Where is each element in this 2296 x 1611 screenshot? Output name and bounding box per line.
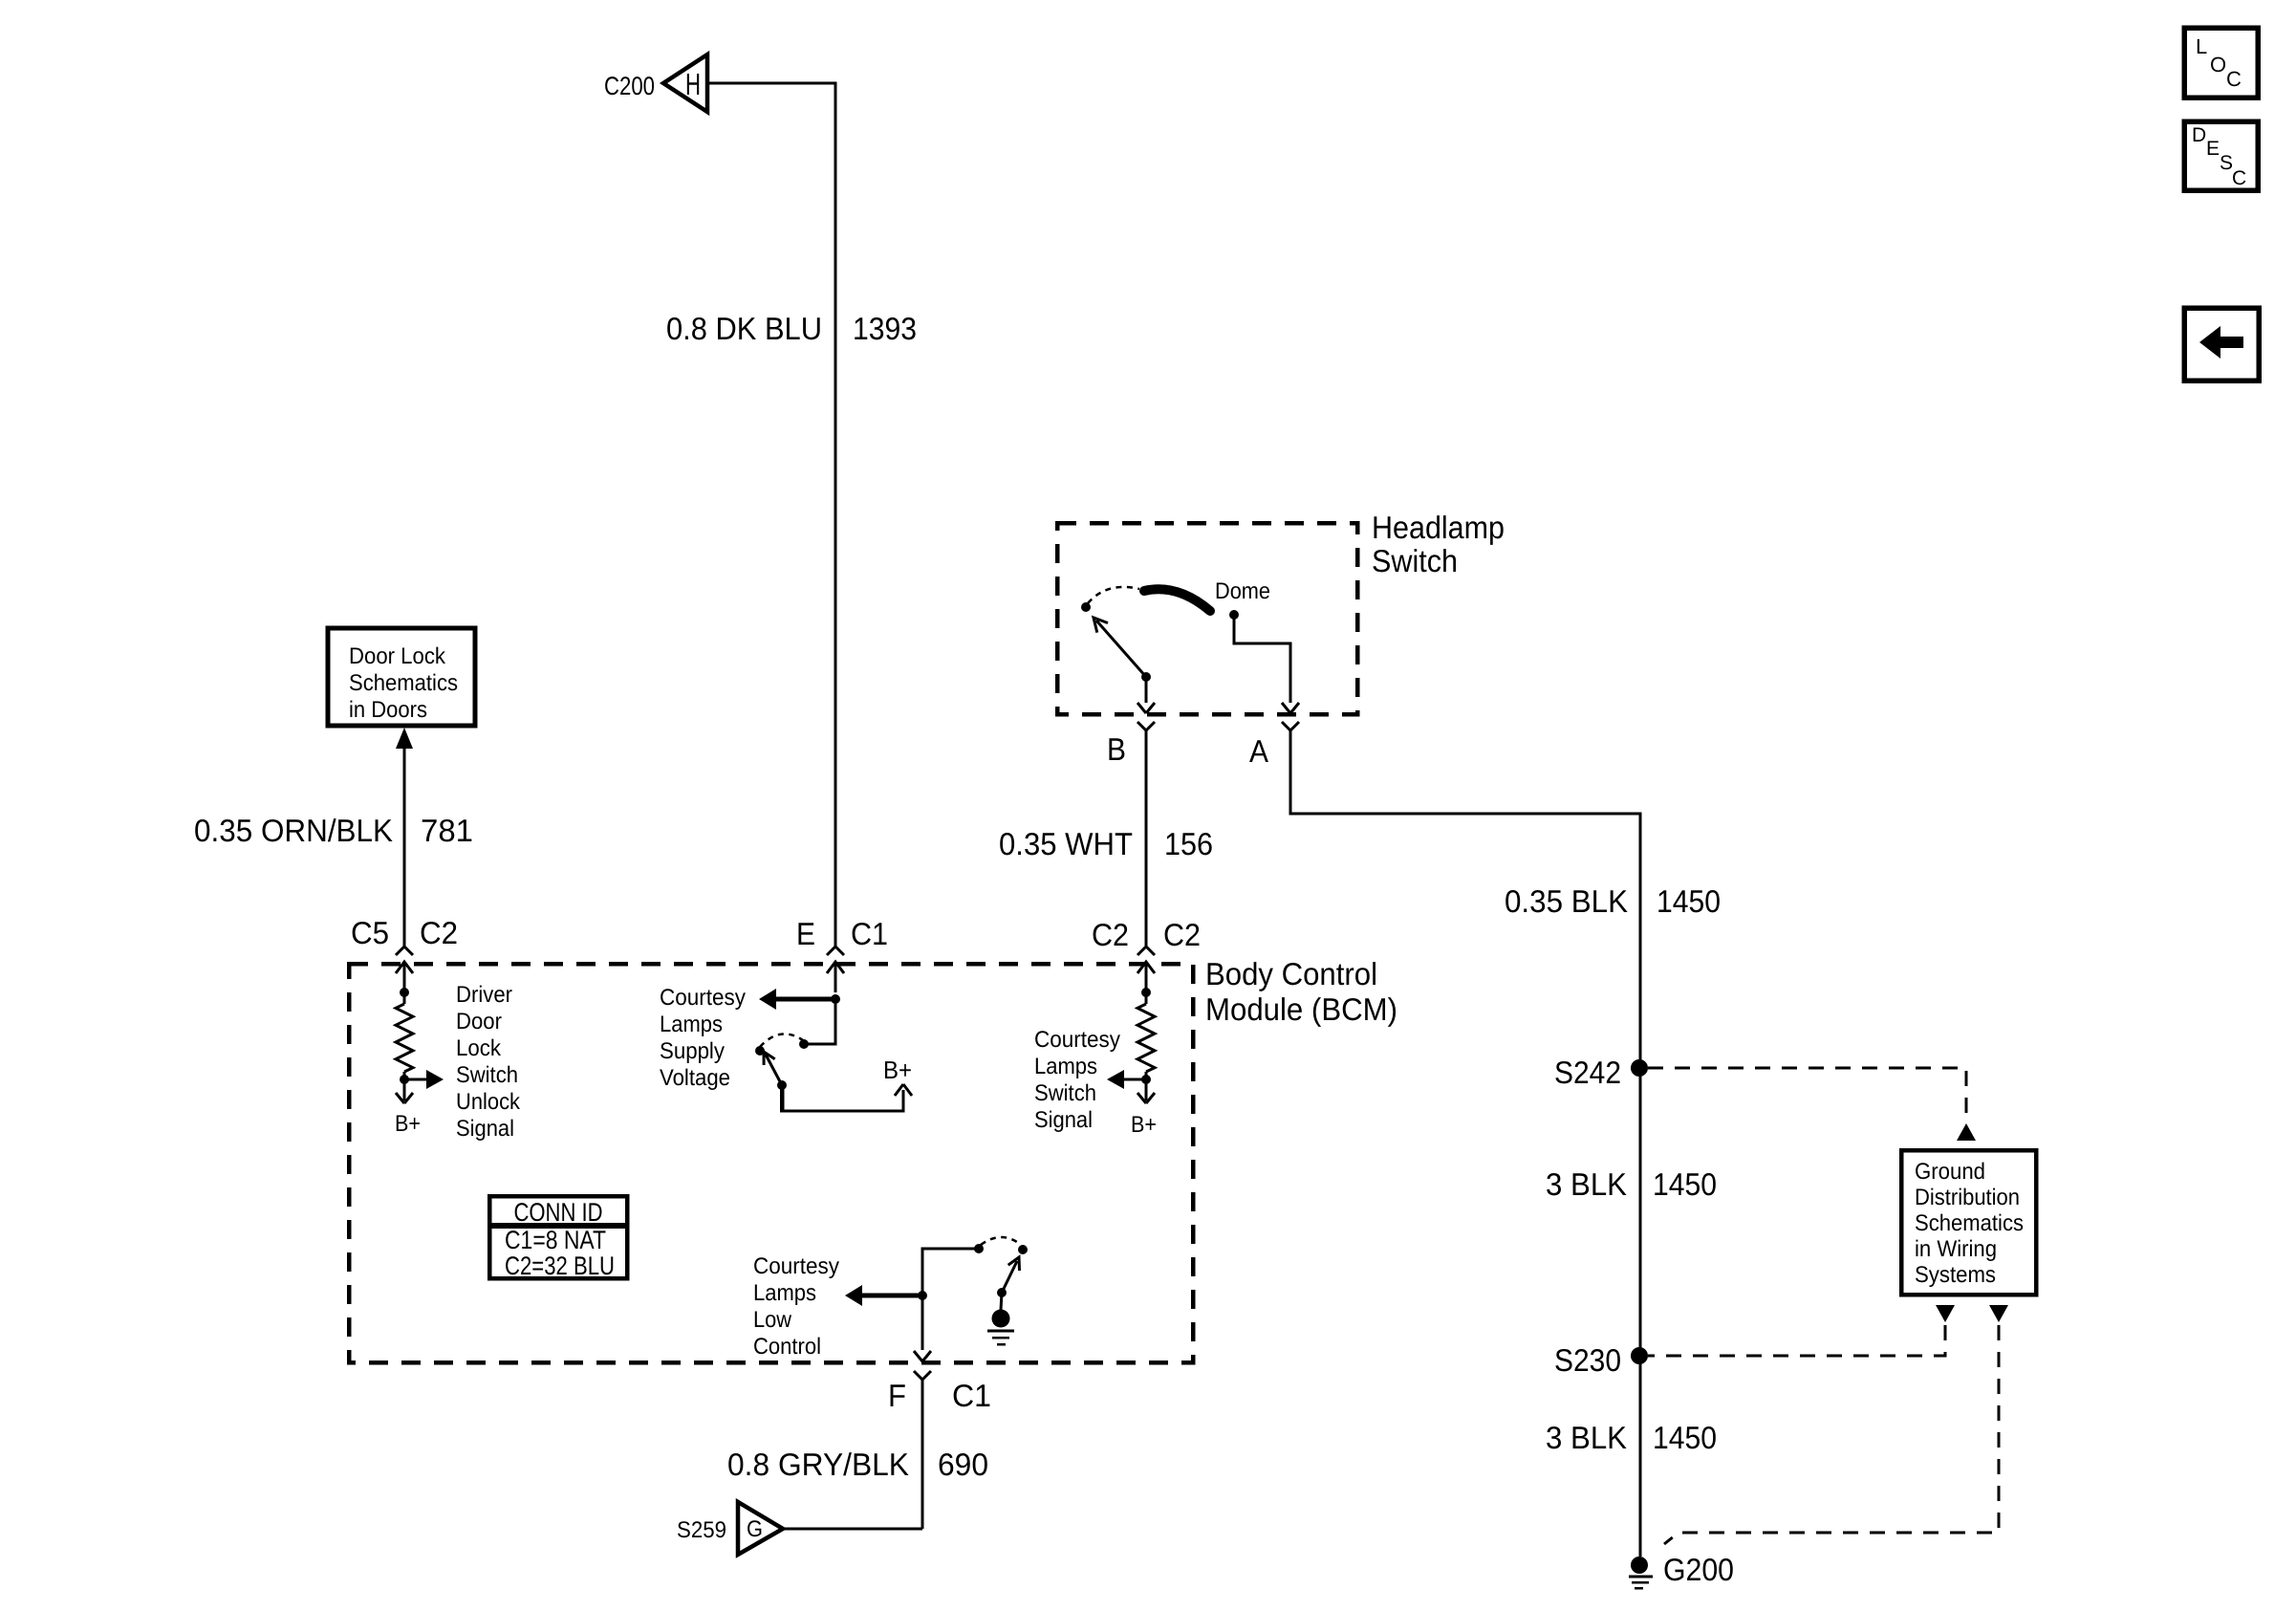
svg-text:690: 690 xyxy=(938,1447,988,1482)
svg-text:Signal: Signal xyxy=(456,1116,514,1142)
svg-text:Module (BCM): Module (BCM) xyxy=(1205,991,1397,1027)
label wire 1450b number xyxy=(1653,1166,1717,1202)
svg-text:C200: C200 xyxy=(604,72,655,100)
svg-text:in Wiring: in Wiring xyxy=(1915,1236,1997,1262)
label B+ (middle) xyxy=(883,1056,912,1084)
svg-text:Lamps: Lamps xyxy=(753,1280,816,1306)
connector pin F/C1 at BCM bottom xyxy=(914,1351,931,1529)
svg-text:Low: Low xyxy=(753,1307,792,1333)
svg-text:S242: S242 xyxy=(1554,1055,1621,1090)
label pin C1 xyxy=(851,916,888,951)
svg-text:C1: C1 xyxy=(851,916,888,951)
switch S-low travel arc (dashed) xyxy=(981,1237,1021,1245)
svg-text:O: O xyxy=(2210,53,2226,76)
label wire 1450a number xyxy=(1657,883,1721,919)
splice S242 xyxy=(1631,1059,1648,1077)
label B+ (left resistor) xyxy=(395,1111,421,1137)
wire 1393 (0.8 DK BLU) from C200 to BCM pin E xyxy=(707,83,835,947)
signal arrow Courtesy Lamps Supply Voltage (thick left arrow) xyxy=(759,989,835,1010)
svg-text:Voltage: Voltage xyxy=(660,1065,730,1091)
switch S-low wiper arm xyxy=(1002,1257,1020,1293)
Headlamp Switch dashed outline xyxy=(1057,523,1357,714)
splice S259 (in-line connector triangle, cavity G) xyxy=(738,1502,783,1555)
svg-text:Headlamp: Headlamp xyxy=(1372,510,1505,545)
svg-text:Lamps: Lamps xyxy=(660,1012,723,1037)
wire from S-mid pivot to B+ arrow xyxy=(780,1083,903,1111)
wire 690 horizontal to S259 xyxy=(783,1528,922,1531)
svg-text:E: E xyxy=(2206,138,2220,160)
dashed link S242 to ground distribution box xyxy=(1648,1068,1976,1141)
dashed link G200 to ground distribution box xyxy=(1664,1305,2008,1544)
label Body Control Module (BCM) xyxy=(1205,956,1397,1027)
label wire 781 name xyxy=(194,813,393,848)
svg-text:C2: C2 xyxy=(1163,917,1201,952)
wire F branch inside BCM xyxy=(922,1249,977,1350)
label wire 1450c name xyxy=(1546,1420,1627,1455)
resistor R2 (courtesy lamps switch signal, BCM) xyxy=(1107,988,1155,1103)
label Driver Door Lock Switch Unlock Signal xyxy=(456,982,521,1142)
label pin E xyxy=(796,916,815,951)
label G200 xyxy=(1663,1552,1734,1587)
svg-text:Lamps: Lamps xyxy=(1034,1054,1097,1079)
svg-text:B+: B+ xyxy=(883,1056,912,1084)
svg-text:B+: B+ xyxy=(1131,1112,1157,1138)
svg-text:Unlock: Unlock xyxy=(456,1089,521,1115)
svg-text:C: C xyxy=(2226,67,2242,91)
connector pin C2/C2 at BCM top xyxy=(1137,947,1155,992)
svg-text:156: 156 xyxy=(1164,826,1213,861)
switch S-mid pivot dot xyxy=(777,1080,787,1090)
svg-text:L: L xyxy=(2196,34,2207,58)
svg-text:Schematics: Schematics xyxy=(349,670,458,696)
svg-text:0.35 WHT: 0.35 WHT xyxy=(999,826,1133,861)
svg-text:G200: G200 xyxy=(1663,1552,1734,1587)
connector C200 (in-line connector triangle, cavity H) xyxy=(663,54,707,112)
label Dome xyxy=(1215,578,1270,604)
headlamp switch Dome contact dot xyxy=(1229,610,1239,620)
Body Control Module (BCM) dashed outline xyxy=(349,964,1193,1362)
svg-text:Door Lock: Door Lock xyxy=(349,643,446,669)
label wire 156 number xyxy=(1164,826,1213,861)
svg-text:C1: C1 xyxy=(952,1378,991,1413)
svg-text:Lock: Lock xyxy=(456,1035,502,1061)
ground symbol (S-low) xyxy=(987,1331,1014,1344)
headlamp switch wiper arm xyxy=(1094,618,1146,677)
label pin B xyxy=(1107,731,1126,767)
svg-text:0.8 GRY/BLK: 0.8 GRY/BLK xyxy=(727,1447,909,1482)
svg-text:1450: 1450 xyxy=(1657,883,1721,919)
svg-text:CONN ID: CONN ID xyxy=(514,1198,603,1227)
label pin F xyxy=(888,1378,906,1413)
svg-text:3 BLK: 3 BLK xyxy=(1546,1166,1627,1202)
svg-text:1450: 1450 xyxy=(1653,1420,1717,1455)
splice S230 xyxy=(1631,1347,1648,1364)
label pin C2 (left) xyxy=(420,915,458,950)
switch S-mid wiper arm xyxy=(764,1052,782,1085)
label S259 xyxy=(677,1517,726,1543)
svg-text:Driver: Driver xyxy=(456,982,512,1008)
label Headlamp Switch xyxy=(1372,510,1505,578)
label wire 1450b name xyxy=(1546,1166,1627,1202)
switch S-mid travel arc (dashed) xyxy=(760,1034,803,1047)
box Ground Distribution Schematics in Wiring Systems xyxy=(1901,1150,2036,1295)
ground ball (S-low) xyxy=(992,1293,1010,1328)
svg-text:1393: 1393 xyxy=(853,311,917,346)
svg-text:Distribution: Distribution xyxy=(1915,1185,2020,1210)
connector pin C5/C2 at BCM top xyxy=(396,947,413,992)
svg-text:Switch: Switch xyxy=(1372,543,1458,578)
label Courtesy Lamps Low Control xyxy=(753,1253,839,1360)
back arrow legend box xyxy=(2184,308,2259,381)
label wire 1393 number xyxy=(853,311,917,346)
svg-text:Supply: Supply xyxy=(660,1038,725,1064)
label S230 xyxy=(1554,1342,1621,1378)
svg-text:B: B xyxy=(1107,731,1126,767)
label pin C1 (bottom) xyxy=(952,1378,991,1413)
label pin C5 xyxy=(351,915,389,950)
svg-text:S230: S230 xyxy=(1554,1342,1621,1378)
LOC legend box xyxy=(2184,28,2258,98)
svg-text:781: 781 xyxy=(421,813,473,848)
B+ source arrow (middle) xyxy=(895,1084,912,1096)
svg-text:in Doors: in Doors xyxy=(349,697,427,723)
CONN ID table xyxy=(489,1196,627,1280)
svg-text:Schematics: Schematics xyxy=(1915,1210,2024,1236)
switch S-mid left contact xyxy=(755,1046,765,1056)
svg-text:B+: B+ xyxy=(395,1111,421,1137)
svg-text:Courtesy: Courtesy xyxy=(660,985,746,1011)
label wire 156 name xyxy=(999,826,1133,861)
ground G200 symbol xyxy=(1629,1577,1653,1588)
resistor R1 (driver door lock switch input, BCM) xyxy=(396,988,444,1103)
switch S-mid fixed contact branch (wire from node E) xyxy=(799,999,835,1049)
svg-text:Door: Door xyxy=(456,1009,502,1034)
label C200 xyxy=(604,72,655,100)
dashed link S230 to ground distribution box xyxy=(1648,1305,1955,1356)
svg-text:H: H xyxy=(685,67,701,101)
headlamp switch travel arc (dashed) xyxy=(1088,587,1139,603)
svg-text:0.35 BLK: 0.35 BLK xyxy=(1505,883,1628,919)
wire 781 (0.35 ORN/BLK) from BCM pin C5 up to Door Lock Schematics xyxy=(396,728,413,947)
svg-text:0.8 DK BLU: 0.8 DK BLU xyxy=(666,311,822,346)
label wire 1393 name xyxy=(666,311,822,346)
label pin A xyxy=(1249,733,1268,769)
signal arrow Courtesy Lamps Low Control (thick left arrow) xyxy=(845,1285,922,1306)
svg-text:F: F xyxy=(888,1378,906,1413)
svg-text:Courtesy: Courtesy xyxy=(753,1253,839,1279)
svg-text:C5: C5 xyxy=(351,915,389,950)
connector pin E/C1 at BCM top xyxy=(827,947,844,992)
svg-text:S259: S259 xyxy=(677,1517,726,1543)
label B+ (right resistor) xyxy=(1131,1112,1157,1138)
DESC legend box xyxy=(2184,121,2258,190)
label S242 xyxy=(1554,1055,1621,1090)
ground G200 dot xyxy=(1631,1557,1648,1574)
svg-text:Ground: Ground xyxy=(1915,1159,1985,1185)
headlamp switch pivot dot xyxy=(1141,672,1151,682)
switch S-low right contact xyxy=(1018,1245,1028,1254)
node F junction dot xyxy=(918,1291,927,1300)
wire Dome contact to pin A xyxy=(1234,615,1299,713)
svg-text:1450: 1450 xyxy=(1653,1166,1717,1202)
svg-text:Switch: Switch xyxy=(456,1062,518,1088)
box Door Lock Schematics in Doors xyxy=(328,628,475,726)
label wire 781 number xyxy=(421,813,473,848)
label Courtesy Lamps Switch Signal xyxy=(1034,1027,1120,1133)
svg-text:D: D xyxy=(2192,124,2206,146)
svg-text:Signal: Signal xyxy=(1034,1107,1093,1133)
svg-text:Courtesy: Courtesy xyxy=(1034,1027,1120,1053)
label wire 1450a name xyxy=(1505,883,1628,919)
svg-text:Systems: Systems xyxy=(1915,1262,1996,1288)
wire 1450 (0.35 BLK / 3 BLK) from pin A to G200 xyxy=(1290,730,1640,1557)
svg-text:C2: C2 xyxy=(1092,917,1129,952)
svg-text:A: A xyxy=(1249,733,1268,769)
svg-text:C2: C2 xyxy=(420,915,458,950)
connector pin B at headlamp switch xyxy=(1137,722,1155,730)
label Courtesy Lamps Supply Voltage xyxy=(660,985,746,1091)
svg-text:0.35 ORN/BLK: 0.35 ORN/BLK xyxy=(194,813,393,848)
switch S-low pivot dot xyxy=(997,1288,1007,1297)
svg-text:Body Control: Body Control xyxy=(1205,956,1377,991)
switch S-low left contact xyxy=(974,1244,984,1253)
node E junction dot xyxy=(831,994,840,1004)
svg-text:E: E xyxy=(796,916,815,951)
wire 156 (0.35 WHT) from pin B to BCM pin C2 xyxy=(1145,730,1148,947)
svg-text:G: G xyxy=(747,1516,763,1542)
svg-text:Dome: Dome xyxy=(1215,578,1270,604)
svg-text:S: S xyxy=(2220,152,2233,174)
svg-text:3 BLK: 3 BLK xyxy=(1546,1420,1627,1455)
svg-text:C2=32 BLU: C2=32 BLU xyxy=(505,1252,615,1280)
svg-text:C: C xyxy=(2232,167,2246,189)
wire pivot to pin B xyxy=(1137,677,1155,713)
label wire 1450c number xyxy=(1653,1420,1717,1455)
label wire 690 number xyxy=(938,1447,988,1482)
headlamp switch left contact (B output) xyxy=(1081,602,1091,612)
svg-text:Control: Control xyxy=(753,1334,821,1360)
svg-text:C1=8 NAT: C1=8 NAT xyxy=(505,1226,606,1254)
label wire 690 name xyxy=(727,1447,909,1482)
label pin C2 (right of wire 156) xyxy=(1163,917,1201,952)
headlamp switch detent arc (thick) xyxy=(1144,589,1210,611)
connector pin A at headlamp switch xyxy=(1282,722,1299,730)
label pin C2 (left of wire 156) xyxy=(1092,917,1129,952)
svg-text:Switch: Switch xyxy=(1034,1080,1096,1106)
